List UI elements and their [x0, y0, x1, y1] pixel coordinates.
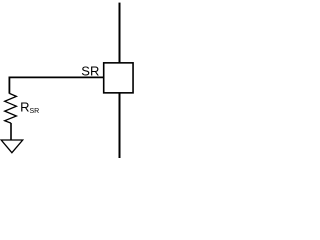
wire: vertical rail bottom segment out of SR box: [119, 93, 121, 159]
wire: vertical rail top segment into SR box: [119, 3, 121, 63]
wire: horizontal from SR pin to left, then down to resistor: [9, 77, 104, 93]
resistor RSR zigzag: [5, 93, 17, 123]
wire: resistor bottom lead to ground: [10, 123, 12, 140]
svg-text:SR: SR: [81, 63, 99, 78]
ground: [1, 140, 23, 153]
SR box (block): [104, 63, 133, 93]
svg-text:RSR: RSR: [20, 100, 39, 115]
